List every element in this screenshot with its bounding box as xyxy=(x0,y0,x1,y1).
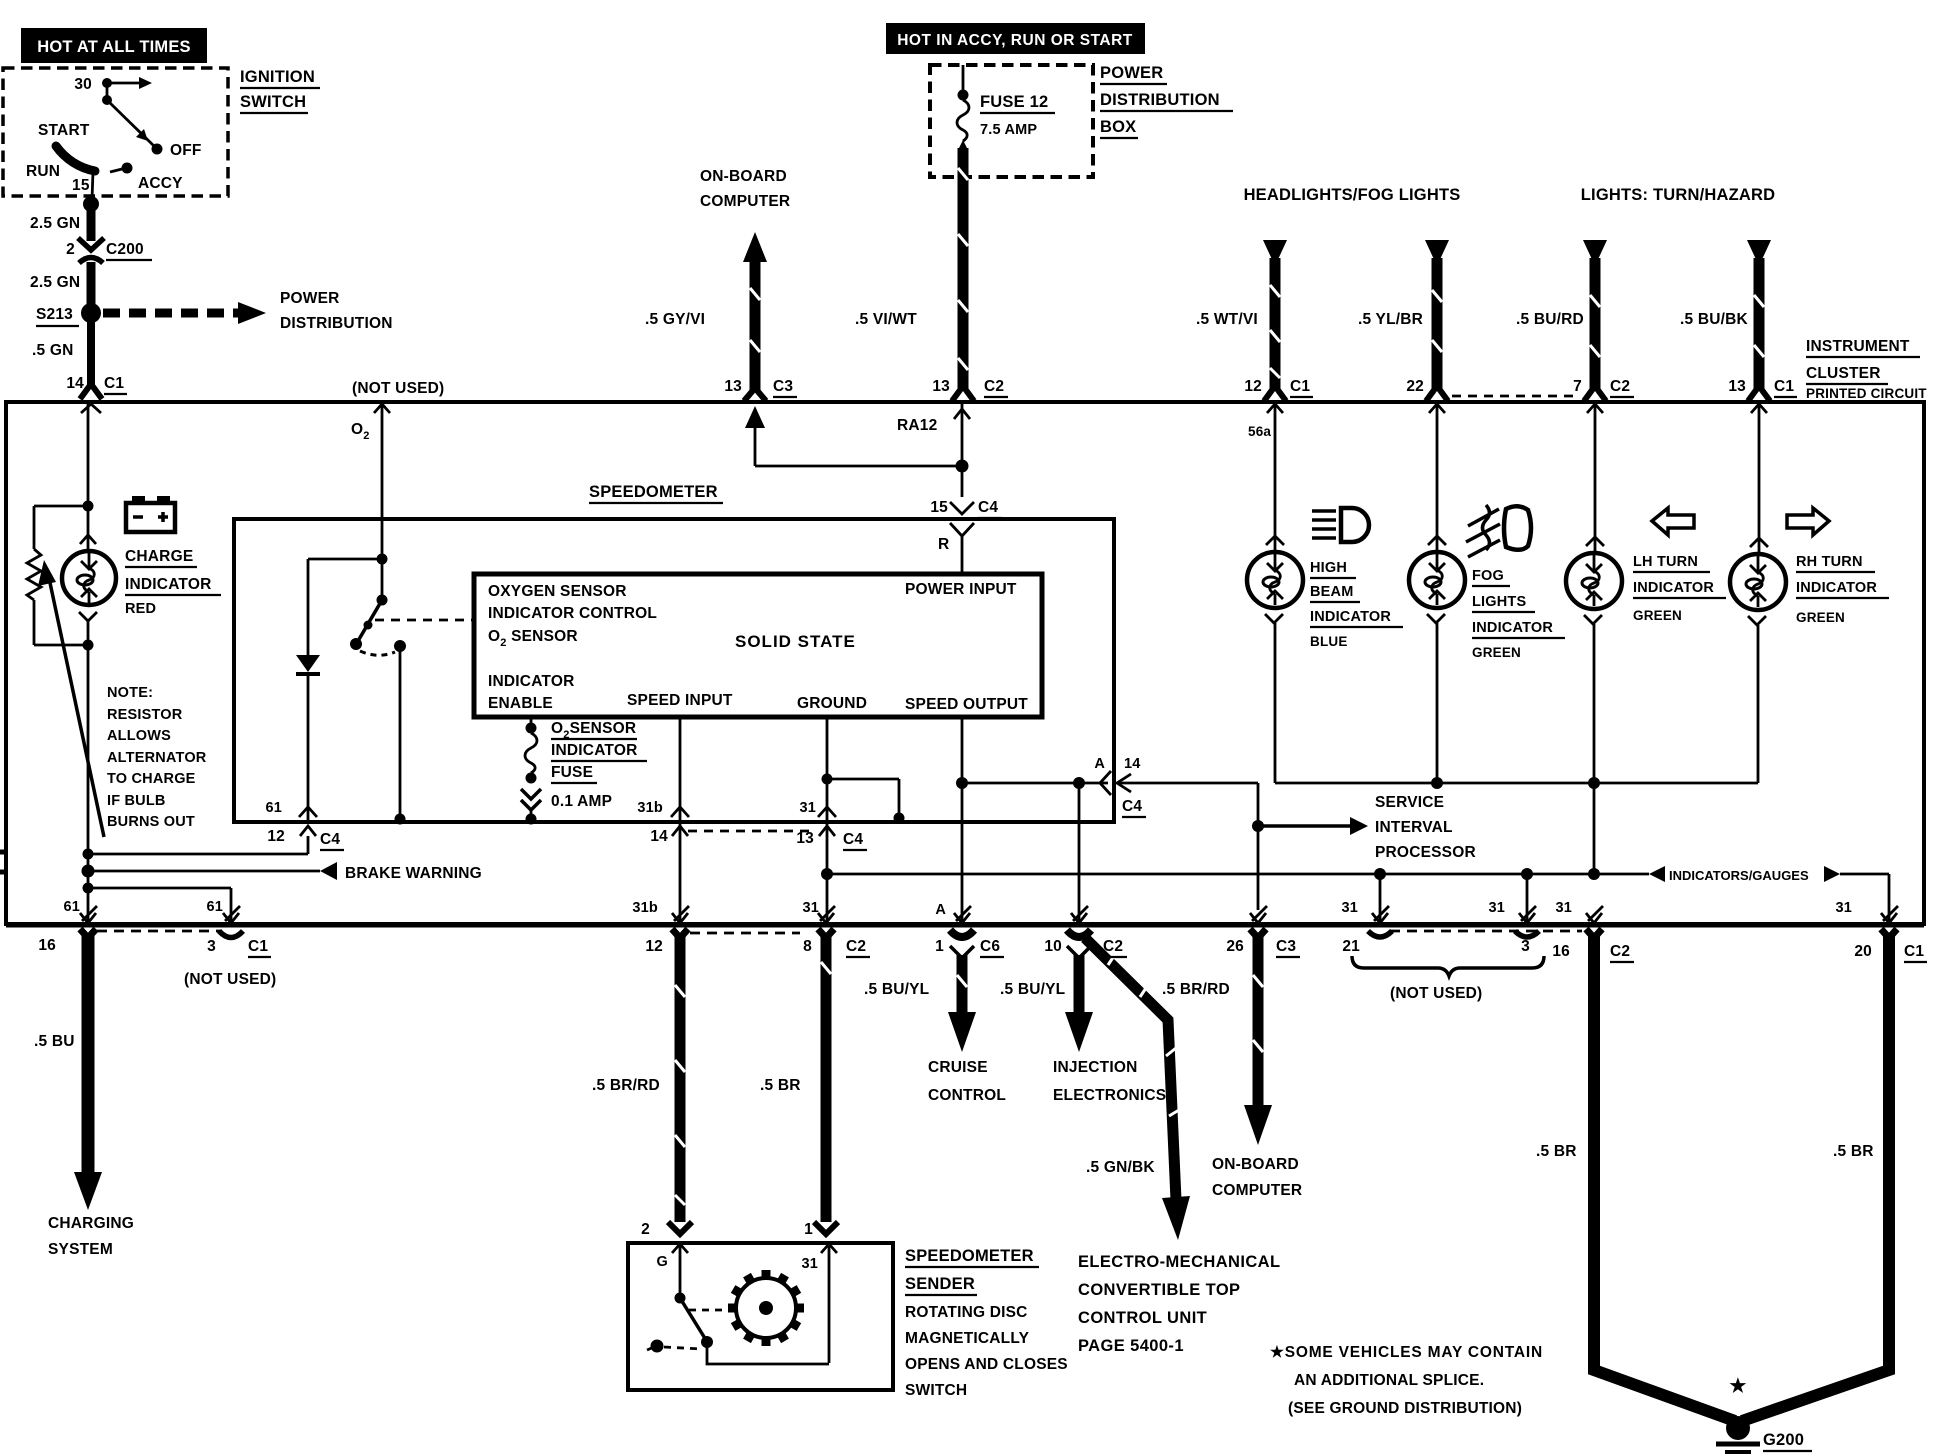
connector pin 14 C1 xyxy=(66,375,127,413)
svg-text:ROTATING DISC: ROTATING DISC xyxy=(905,1304,1028,1321)
svg-text:CLUSTER: CLUSTER xyxy=(1806,365,1881,382)
svg-text:IGNITION: IGNITION xyxy=(240,68,315,86)
svg-text:2: 2 xyxy=(641,1221,650,1238)
svg-text:ALTERNATOR: ALTERNATOR xyxy=(107,750,207,766)
svg-text:BEAM: BEAM xyxy=(1310,584,1354,600)
connector 61 exit left xyxy=(63,888,97,923)
svg-text:OPENS AND CLOSES: OPENS AND CLOSES xyxy=(905,1356,1068,1373)
svg-text:31: 31 xyxy=(802,900,819,916)
connector 31 21 exit xyxy=(1341,900,1392,955)
speedometer sender box xyxy=(628,1243,893,1390)
svg-text:.5 GN: .5 GN xyxy=(32,342,73,359)
svg-text:CHARGING: CHARGING xyxy=(48,1215,134,1232)
wire tap to connector 3 xyxy=(1526,874,1529,922)
node junction below charge lamp xyxy=(83,640,94,651)
connector 3 C1 not used xyxy=(97,931,276,988)
connector 2 sender xyxy=(641,1221,692,1238)
svg-text:7.5 AMP: 7.5 AMP xyxy=(980,122,1037,138)
svg-text:COMPUTER: COMPUTER xyxy=(1212,1182,1302,1199)
fuse 12 xyxy=(957,65,1055,141)
power distribution box dashed xyxy=(930,65,1093,177)
svg-text:DISTRIBUTION: DISTRIBUTION xyxy=(1100,91,1220,109)
svg-text:POWER: POWER xyxy=(1100,64,1163,82)
svg-text:ENABLE: ENABLE xyxy=(488,695,553,712)
connector 31 16 C2 exit xyxy=(1552,900,1634,962)
label cruise control xyxy=(928,1059,1006,1104)
svg-text:.5 VI/WT: .5 VI/WT xyxy=(855,311,917,328)
svg-text:7: 7 xyxy=(1573,378,1582,395)
ground G200 xyxy=(1716,1416,1812,1452)
svg-text:BRAKE WARNING: BRAKE WARNING xyxy=(345,865,482,882)
svg-text:ELECTRONICS: ELECTRONICS xyxy=(1053,1087,1166,1104)
svg-text:1: 1 xyxy=(935,938,944,955)
svg-text:.5 BR/RD: .5 BR/RD xyxy=(1162,981,1230,998)
wire on-board computer hatched with arrow xyxy=(743,232,767,390)
label charging system xyxy=(48,1215,134,1258)
wire O2 junction to diode branch xyxy=(308,559,382,655)
connector 26 C3 exit xyxy=(1226,906,1300,957)
svg-text:A: A xyxy=(1094,756,1105,772)
diode xyxy=(296,655,320,820)
svg-text:.5 BR: .5 BR xyxy=(1833,1143,1874,1160)
wire tap to connector 21 xyxy=(1379,874,1382,922)
svg-text:10: 10 xyxy=(1044,938,1062,955)
wire 10 C2 exit down xyxy=(1078,783,1081,922)
svg-text:C4: C4 xyxy=(1122,798,1142,815)
svg-text:IF BULB: IF BULB xyxy=(107,793,166,809)
svg-text:POWER INPUT: POWER INPUT xyxy=(905,581,1017,598)
svg-text:16: 16 xyxy=(38,937,56,954)
svg-text:ACCY: ACCY xyxy=(138,175,183,192)
wire lamp ground bus xyxy=(1275,782,1758,785)
svg-text:INTERVAL: INTERVAL xyxy=(1375,819,1453,836)
speedometer label xyxy=(589,483,723,503)
svg-text:START: START xyxy=(38,122,90,139)
connector pin 13 C3 top xyxy=(724,378,797,401)
svg-text:SWITCH: SWITCH xyxy=(240,93,306,111)
svg-text:BLUE: BLUE xyxy=(1310,634,1348,649)
wire ground pin xyxy=(826,717,829,820)
svg-text:2.5 GN: 2.5 GN xyxy=(30,215,80,232)
sender rotating disc xyxy=(728,1270,804,1346)
ignition switch terminal 30 xyxy=(74,76,152,105)
svg-text:INDICATORS/GAUGES: INDICATORS/GAUGES xyxy=(1669,868,1809,883)
svg-text:61: 61 xyxy=(265,800,282,816)
node RA12 xyxy=(897,404,970,497)
connector pin 7 C2 top xyxy=(1573,378,1634,413)
svg-text:★: ★ xyxy=(1729,1376,1746,1397)
svg-text:61: 61 xyxy=(206,899,223,915)
svg-text:.5 GN/BK: .5 GN/BK xyxy=(1086,1159,1155,1176)
connector pin 12 C1 top xyxy=(1244,378,1313,439)
wire RH turn feed 13 C1 xyxy=(1747,240,1771,390)
wire speed input exit hatched to sender xyxy=(672,929,688,1222)
svg-text:13: 13 xyxy=(724,378,742,395)
wire from right into A 14 C4 xyxy=(1117,783,1258,910)
wire junction to speedometer pin 61 12 C4 xyxy=(88,836,308,854)
wire speed input to cluster exit xyxy=(679,820,682,922)
svg-text:2.5 GN: 2.5 GN xyxy=(30,274,80,291)
svg-text:26: 26 xyxy=(1226,938,1244,955)
ignition switch ACCY contact xyxy=(110,163,183,193)
svg-text:TO CHARGE: TO CHARGE xyxy=(107,771,196,787)
svg-text:31: 31 xyxy=(799,800,816,816)
svg-text:CRUISE: CRUISE xyxy=(928,1059,988,1076)
connector A 1 C6 exit xyxy=(935,902,1004,957)
svg-text:C4: C4 xyxy=(843,831,863,848)
svg-text:ON-BOARD: ON-BOARD xyxy=(700,168,787,185)
svg-text:RA12: RA12 xyxy=(897,417,937,434)
label LH turn indicator green xyxy=(1633,554,1726,623)
svg-text:CONVERTIBLE TOP: CONVERTIBLE TOP xyxy=(1078,1281,1240,1299)
svg-text:.5 BR/RD: .5 BR/RD xyxy=(592,1077,660,1094)
svg-text:.5 BU/YL: .5 BU/YL xyxy=(864,981,929,998)
splice S213 xyxy=(36,303,101,326)
node indicators tap 3 xyxy=(1521,868,1533,880)
lamp LH turn indicator xyxy=(1566,404,1622,874)
svg-text:.5 BU/BK: .5 BU/BK xyxy=(1680,311,1749,328)
svg-text:HEADLIGHTS/FOG LIGHTS: HEADLIGHTS/FOG LIGHTS xyxy=(1244,186,1461,204)
svg-text:GREEN: GREEN xyxy=(1796,610,1845,625)
svg-text:31b: 31b xyxy=(637,800,663,816)
node ground indicators junction xyxy=(821,868,833,880)
svg-text:BOX: BOX xyxy=(1100,118,1136,136)
svg-text:C2: C2 xyxy=(1610,943,1630,960)
svg-text:ALLOWS: ALLOWS xyxy=(107,728,171,744)
node junction 61 feed b xyxy=(83,883,94,894)
wire charging system thick xyxy=(38,929,102,1210)
svg-text:3: 3 xyxy=(1521,938,1530,955)
svg-text:RESISTOR: RESISTOR xyxy=(107,707,183,723)
wire junction to 61 3 C1 xyxy=(88,888,231,922)
node junction 61 feed a xyxy=(83,849,94,860)
svg-text:DISTRIBUTION: DISTRIBUTION xyxy=(280,315,393,332)
svg-text:C1: C1 xyxy=(1290,378,1310,395)
svg-text:INJECTION: INJECTION xyxy=(1053,1059,1137,1076)
svg-text:LH TURN: LH TURN xyxy=(1633,554,1698,570)
svg-text:SYSTEM: SYSTEM xyxy=(48,1241,113,1258)
svg-text:.5 YL/BR: .5 YL/BR xyxy=(1358,311,1423,328)
svg-text:HOT AT ALL TIMES: HOT AT ALL TIMES xyxy=(37,38,191,56)
svg-text:ON-BOARD: ON-BOARD xyxy=(1212,1156,1299,1173)
node indicators tap 21 xyxy=(1374,868,1386,880)
wire brake warning xyxy=(88,862,482,882)
wire service interval arrow xyxy=(1258,794,1476,861)
connector 10 C2 exit xyxy=(1044,906,1127,957)
wire cruise control xyxy=(948,946,976,1052)
svg-text:PROCESSOR: PROCESSOR xyxy=(1375,844,1476,861)
connector pin 13 C2 top xyxy=(932,378,1008,401)
ignition switch dashed box xyxy=(3,68,228,196)
svg-text:12: 12 xyxy=(1244,378,1262,395)
charge indicator lamp xyxy=(62,506,116,645)
svg-text:SWITCH: SWITCH xyxy=(905,1382,967,1399)
svg-text:RUN: RUN xyxy=(26,163,60,180)
svg-text:R: R xyxy=(938,536,949,553)
svg-text:C2: C2 xyxy=(846,938,866,955)
label RH turn indicator green xyxy=(1796,554,1889,625)
lamp fog lights indicator xyxy=(1409,404,1465,783)
svg-text:★SOME VEHICLES MAY CONTAIN: ★SOME VEHICLES MAY CONTAIN xyxy=(1270,1344,1543,1361)
label on-board computer top xyxy=(700,168,790,210)
svg-text:12: 12 xyxy=(267,828,285,845)
svg-text:.5 BR: .5 BR xyxy=(760,1077,801,1094)
connector 31b 14 below speedometer xyxy=(637,800,816,845)
svg-text:31b: 31b xyxy=(632,900,658,916)
connector 31 8 C2 exit xyxy=(802,900,870,957)
svg-text:NOTE:: NOTE: xyxy=(107,685,153,701)
star note xyxy=(1270,1344,1543,1417)
svg-text:56a: 56a xyxy=(1248,424,1271,439)
svg-text:MAGNETICALLY: MAGNETICALLY xyxy=(905,1330,1030,1347)
lamp high beam indicator xyxy=(1247,404,1303,783)
label charge indicator red xyxy=(125,548,221,617)
wire indicators/gauges bus xyxy=(827,866,1889,922)
wire convertible top diagonal hatched xyxy=(1085,938,1190,1240)
svg-text:RED: RED xyxy=(125,601,156,617)
node O2 junction xyxy=(377,554,388,565)
svg-text:OXYGEN SENSOR: OXYGEN SENSOR xyxy=(488,583,627,600)
connector 1 sender xyxy=(804,1221,838,1238)
note arrow to resistor xyxy=(38,560,104,837)
node speed output tap xyxy=(956,777,968,789)
svg-text:(NOT USED): (NOT USED) xyxy=(184,971,276,988)
sender switch xyxy=(647,1293,829,1365)
lamp RH turn indicator xyxy=(1730,404,1786,783)
svg-text:CONTROL UNIT: CONTROL UNIT xyxy=(1078,1309,1207,1327)
svg-text:(SEE GROUND DISTRIBUTION): (SEE GROUND DISTRIBUTION) xyxy=(1288,1400,1522,1417)
svg-text:13: 13 xyxy=(1728,378,1746,395)
svg-text:FOG: FOG xyxy=(1472,568,1504,584)
connector pin 22 top xyxy=(1406,378,1578,413)
wire fuse to pin 13 C2 hatched xyxy=(958,140,968,388)
wire speed input pin xyxy=(679,717,682,820)
label on-board computer bottom xyxy=(1212,1156,1302,1199)
svg-text:SPEEDOMETER: SPEEDOMETER xyxy=(905,1247,1034,1265)
svg-text:POWER: POWER xyxy=(280,290,340,307)
svg-text:AN ADDITIONAL SPLICE.: AN ADDITIONAL SPLICE. xyxy=(1294,1372,1484,1389)
svg-text:SOLID STATE: SOLID STATE xyxy=(735,632,856,651)
labels inside solid state xyxy=(488,581,1028,713)
wire ground strap 20 C1 to G200 xyxy=(1742,929,1897,1421)
svg-text:.5 GY/VI: .5 GY/VI xyxy=(645,311,705,328)
power distribution box label xyxy=(1100,64,1233,138)
wire fog feed 22 xyxy=(1425,240,1449,390)
label instrument cluster printed circuit xyxy=(1806,338,1927,401)
svg-text:.5 BU/YL: .5 BU/YL xyxy=(1000,981,1065,998)
svg-text:G: G xyxy=(657,1254,668,1270)
svg-text:3: 3 xyxy=(207,938,216,955)
svg-text:31: 31 xyxy=(1341,900,1358,916)
svg-text:BURNS OUT: BURNS OUT xyxy=(107,814,195,830)
svg-text:C1: C1 xyxy=(1774,378,1794,395)
svg-text:GROUND: GROUND xyxy=(797,695,867,712)
ignition switch label xyxy=(240,68,320,113)
wire on-board computer bottom hatched xyxy=(1244,929,1272,1145)
svg-text:INDICATOR: INDICATOR xyxy=(551,742,637,759)
svg-text:30: 30 xyxy=(74,76,92,93)
wire 13 C3 down to RA12 junction xyxy=(745,406,962,466)
svg-text:INDICATOR: INDICATOR xyxy=(1310,609,1391,625)
svg-text:15: 15 xyxy=(930,499,948,516)
svg-text:14: 14 xyxy=(1124,756,1141,772)
wire ignition 15 to splice xyxy=(83,171,99,241)
svg-text:SERVICE: SERVICE xyxy=(1375,794,1444,811)
battery icon xyxy=(126,496,175,532)
speedometer box xyxy=(234,519,1114,822)
node junction top of charge lamp xyxy=(83,501,94,512)
svg-text:1: 1 xyxy=(804,1221,813,1238)
svg-text:C2: C2 xyxy=(1103,938,1123,955)
label high beam indicator blue xyxy=(1310,560,1403,649)
svg-text:(NOT USED): (NOT USED) xyxy=(1390,985,1482,1002)
svg-text:RH TURN: RH TURN xyxy=(1796,554,1863,570)
svg-text:SPEED INPUT: SPEED INPUT xyxy=(627,692,733,709)
node bus LH xyxy=(1588,777,1600,789)
svg-text:CHARGE: CHARGE xyxy=(125,548,193,565)
label HOT IN ACCY RUN OR START xyxy=(886,23,1145,54)
o2 sensor indicator fuse xyxy=(521,717,541,825)
svg-text:OFF: OFF xyxy=(170,142,202,159)
svg-text:PRINTED CIRCUIT: PRINTED CIRCUIT xyxy=(1806,386,1927,401)
svg-text:ELECTRO-MECHANICAL: ELECTRO-MECHANICAL xyxy=(1078,1253,1280,1271)
connector 31b 12 exit xyxy=(632,900,689,955)
solid state box xyxy=(474,574,1042,717)
svg-text:INSTRUMENT: INSTRUMENT xyxy=(1806,338,1910,355)
svg-text:2: 2 xyxy=(66,241,75,258)
wire power input pin xyxy=(961,574,964,576)
brace not used xyxy=(1352,956,1544,1002)
connector 31 13 C4 below speedometer xyxy=(796,800,867,850)
icon fog lights xyxy=(1466,505,1531,557)
svg-text:INDICATOR CONTROL: INDICATOR CONTROL xyxy=(488,605,657,622)
svg-text:14: 14 xyxy=(650,828,668,845)
svg-text:61: 61 xyxy=(63,899,80,915)
svg-text:31: 31 xyxy=(1488,900,1505,916)
svg-text:C4: C4 xyxy=(320,831,340,848)
svg-text:.5 WT/VI: .5 WT/VI xyxy=(1196,311,1258,328)
svg-text:SPEED OUTPUT: SPEED OUTPUT xyxy=(905,696,1028,713)
node ground tap xyxy=(822,774,833,785)
note text resistor allows alternator xyxy=(107,685,207,830)
svg-text:16: 16 xyxy=(1552,943,1570,960)
svg-text:INDICATOR: INDICATOR xyxy=(488,673,574,690)
wire dashed not used 21 to 16 xyxy=(1390,930,1582,933)
svg-text:C3: C3 xyxy=(1276,938,1296,955)
ignition switch wiper to OFF xyxy=(107,100,202,159)
node on speedometer box edge xyxy=(395,814,406,825)
svg-text:HOT IN ACCY, RUN OR START: HOT IN ACCY, RUN OR START xyxy=(897,32,1133,49)
svg-text:HIGH: HIGH xyxy=(1310,560,1347,576)
svg-text:C2: C2 xyxy=(1610,378,1630,395)
svg-text:31: 31 xyxy=(1555,900,1572,916)
wire S213 to pin 14 C1 xyxy=(87,313,95,386)
node indicators tap 16 xyxy=(1588,868,1600,880)
svg-text:C6: C6 xyxy=(980,938,1000,955)
svg-text:C1: C1 xyxy=(1904,943,1924,960)
svg-text:14: 14 xyxy=(66,375,84,392)
instrument cluster main box xyxy=(0,402,1924,926)
svg-text:C2: C2 xyxy=(984,378,1004,395)
wire lamp column to lower junctions xyxy=(87,645,90,887)
svg-text:S213: S213 xyxy=(36,306,73,323)
o2 switch xyxy=(350,559,472,655)
wire dashed 12 to 8 xyxy=(690,932,800,935)
svg-text:31: 31 xyxy=(1835,900,1852,916)
connector 15 C4 xyxy=(930,499,1002,576)
svg-text:C3: C3 xyxy=(773,378,793,395)
sender pin G xyxy=(657,1244,688,1295)
svg-text:12: 12 xyxy=(645,938,663,955)
svg-text:.5 BU/RD: .5 BU/RD xyxy=(1516,311,1584,328)
svg-text:INDICATOR: INDICATOR xyxy=(1796,580,1877,596)
svg-text:PAGE 5400-1: PAGE 5400-1 xyxy=(1078,1337,1184,1355)
node junction brake warning xyxy=(82,865,95,878)
wire injection electronics xyxy=(1065,946,1093,1052)
wire ground strap 16 C2 to G200 xyxy=(1586,929,1735,1421)
label electro-mechanical convertible top xyxy=(1078,1253,1280,1355)
wire ground tap to box edge xyxy=(827,779,905,824)
svg-text:FUSE 12: FUSE 12 xyxy=(980,93,1048,111)
svg-text:13: 13 xyxy=(796,830,814,847)
node O2 entry xyxy=(351,404,390,559)
svg-text:A: A xyxy=(935,902,946,918)
label o2 sensor indicator fuse xyxy=(551,720,647,810)
ignition switch START RUN arc xyxy=(26,122,95,194)
svg-text:SPEEDOMETER: SPEEDOMETER xyxy=(589,483,718,501)
connector 61 exit second xyxy=(206,899,240,923)
svg-text:31: 31 xyxy=(801,1256,818,1272)
svg-text:INDICATOR: INDICATOR xyxy=(1472,620,1553,636)
wire headlight feed 12 C1 xyxy=(1263,240,1287,390)
svg-text:15: 15 xyxy=(72,177,90,194)
node bus fog xyxy=(1431,777,1443,789)
svg-text:20: 20 xyxy=(1854,943,1872,960)
resistor shunt branch xyxy=(27,506,88,645)
wire ground to cluster exit xyxy=(826,820,829,922)
label injection electronics xyxy=(1053,1059,1166,1104)
svg-text:GREEN: GREEN xyxy=(1633,608,1682,623)
wire C200 to S213 xyxy=(87,262,96,308)
svg-text:C200: C200 xyxy=(106,241,144,258)
svg-text:(NOT USED): (NOT USED) xyxy=(352,380,444,397)
connector 12 C4 below speedometer xyxy=(265,800,344,850)
svg-text:22: 22 xyxy=(1406,378,1424,395)
wire switch contact down xyxy=(399,646,402,820)
sender pin 31 xyxy=(801,1244,837,1363)
svg-text:LIGHTS: LIGHTS xyxy=(1472,594,1526,610)
svg-text:INDICATOR: INDICATOR xyxy=(125,576,211,593)
svg-text:G200: G200 xyxy=(1763,1431,1804,1449)
power distribution arrow xyxy=(103,290,393,332)
svg-text:C4: C4 xyxy=(978,499,998,516)
icon high beam xyxy=(1312,508,1369,542)
connector A 14 C4 on speedometer edge xyxy=(1094,756,1146,817)
icon LH turn arrow xyxy=(1652,508,1694,535)
connector 31 3 exit xyxy=(1488,900,1539,955)
connector pin 13 C1 top right xyxy=(1728,378,1797,413)
svg-text:COMPUTER: COMPUTER xyxy=(700,193,790,210)
svg-text:13: 13 xyxy=(932,378,950,395)
svg-text:C1: C1 xyxy=(104,375,124,392)
svg-text:21: 21 xyxy=(1342,938,1360,955)
wire 14 C1 entry down left column xyxy=(87,404,90,506)
label HOT AT ALL TIMES xyxy=(21,28,207,63)
svg-text:.5 BR: .5 BR xyxy=(1536,1143,1577,1160)
svg-text:INDICATOR: INDICATOR xyxy=(1633,580,1714,596)
svg-text:.5 BU: .5 BU xyxy=(34,1033,75,1050)
wire speed output pin xyxy=(961,717,964,922)
